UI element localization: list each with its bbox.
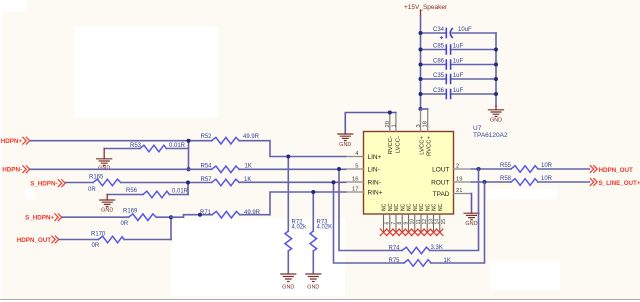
svg-text:12: 12: [422, 219, 428, 225]
sheet bottom border: [0, 299, 640, 301]
svg-text:19: 19: [456, 176, 462, 182]
wire R75 feedback left: [334, 182, 405, 263]
svg-text:RIN+: RIN+: [368, 190, 383, 197]
svg-text:GND: GND: [465, 221, 477, 227]
svg-text:NC: NC: [413, 203, 419, 211]
svg-text:LIN-: LIN-: [368, 167, 380, 174]
resistor R52 49.9R: [201, 134, 260, 144]
wire ROUT to R58: [472, 181, 512, 183]
junction R52/R53: [187, 139, 191, 143]
port S_LINE_OUT+: [590, 179, 640, 187]
junction R72/pin4 net: [286, 155, 290, 159]
resistor R170 0R: [91, 232, 124, 249]
svg-text:R165: R165: [89, 174, 104, 180]
wire R169 to junction: [156, 216, 171, 218]
svg-text:5: 5: [355, 163, 358, 169]
ground GND capacitors: [489, 106, 504, 123]
svg-text:10R: 10R: [541, 176, 553, 182]
svg-text:HDPN_OUT: HDPN_OUT: [17, 237, 51, 244]
pin 16 RIN-: [346, 176, 381, 186]
svg-text:1uF: 1uF: [453, 88, 464, 94]
resistor R57 1K: [201, 177, 252, 186]
junction dots on right rail: [494, 48, 498, 97]
wire right capacitor rail: [495, 33, 497, 106]
port HDPN+: [1, 137, 30, 145]
svg-text:C86: C86: [433, 59, 445, 65]
svg-text:GND: GND: [307, 284, 319, 290]
svg-text:0.01R: 0.01R: [172, 189, 189, 195]
svg-text:NC: NC: [407, 203, 413, 211]
svg-text:NC: NC: [419, 203, 425, 211]
svg-text:6: 6: [385, 222, 391, 225]
ground GND left of U7: [338, 134, 353, 148]
capacitor C35: [421, 73, 497, 84]
ground GND R53: [97, 149, 112, 172]
svg-text:10: 10: [410, 219, 416, 225]
svg-text:20: 20: [385, 121, 391, 127]
ground GND R73: [306, 274, 321, 290]
junction R165/R56/R57: [186, 181, 190, 185]
svg-text:1uF: 1uF: [453, 73, 464, 79]
capacitor C86: [421, 59, 497, 70]
svg-text:GND: GND: [101, 208, 113, 214]
svg-text:4.02K: 4.02K: [317, 225, 333, 231]
port HDPN-: [2, 166, 29, 174]
wire R55 to port: [538, 168, 590, 170]
port S_HDPN-: [30, 180, 65, 188]
wire R74 feedback right: [430, 169, 479, 251]
resistor R54 1K: [201, 164, 252, 173]
svg-text:S_HDPN+: S_HDPN+: [25, 215, 54, 222]
resistor R58 10R: [500, 176, 553, 186]
svg-text:R58: R58: [500, 176, 512, 182]
svg-text:1: 1: [391, 124, 397, 127]
wire HDPN- net: [30, 168, 212, 170]
wire jog to R71: [171, 215, 212, 218]
svg-text:HDPN-: HDPN-: [2, 167, 22, 174]
svg-text:0R: 0R: [92, 243, 100, 249]
resistor R56 0.01R: [107, 188, 188, 198]
svg-text:R169: R169: [123, 209, 138, 215]
svg-text:GND: GND: [490, 117, 502, 123]
wire R75 feedback right: [431, 182, 485, 263]
svg-text:LOUT: LOUT: [432, 167, 449, 174]
wire R71 to pin17: [240, 192, 346, 215]
svg-text:16: 16: [352, 176, 358, 182]
svg-text:+15V_Speaker: +15V_Speaker: [404, 4, 448, 11]
ground GND R56: [100, 195, 115, 214]
capacitor C36: [421, 88, 497, 99]
svg-text:R170: R170: [91, 232, 106, 238]
pin 5 LIN-: [346, 163, 380, 173]
resistor R74 3.3K: [389, 245, 443, 254]
svg-text:R71: R71: [200, 210, 212, 216]
svg-text:49.9R: 49.9R: [243, 134, 260, 140]
svg-text:NC: NC: [432, 203, 438, 211]
svg-text:HDPN+: HDPN+: [1, 138, 23, 145]
svg-text:U7: U7: [473, 125, 482, 132]
svg-text:GND: GND: [339, 142, 351, 148]
svg-text:0R: 0R: [88, 187, 96, 193]
resistor R53 0.01R: [104, 143, 188, 152]
wire pin3/pin18 tie: [421, 108, 428, 110]
svg-text:R54: R54: [201, 164, 213, 170]
svg-text:ROUT: ROUT: [431, 180, 449, 187]
NC pin numbers 6-15: [385, 219, 447, 225]
svg-text:S_HDPN-: S_HDPN-: [30, 181, 57, 188]
svg-text:NC: NC: [388, 203, 394, 211]
svg-text:0.01R: 0.01R: [169, 143, 186, 149]
port S_HDPN+: [25, 214, 62, 222]
resistor R73 4.02K: [310, 192, 332, 273]
resistor R165 0R: [88, 174, 121, 193]
junction S_HDPN+/HDPN_OUT: [169, 215, 173, 219]
svg-text:C34: C34: [433, 27, 445, 33]
pin 17 RIN+: [346, 186, 383, 196]
svg-text:15: 15: [441, 219, 447, 225]
resistor R169 0R: [121, 209, 157, 228]
svg-text:14: 14: [435, 219, 441, 225]
wire R165 to R57: [121, 182, 212, 184]
svg-text:1uF: 1uF: [453, 44, 464, 50]
svg-text:18: 18: [423, 121, 429, 127]
ground GND TPAD: [464, 213, 479, 227]
wire TPAD to ground: [471, 194, 473, 214]
pin 2 LOUT: [432, 163, 471, 173]
junction R74/pin5 net: [337, 167, 341, 171]
svg-text:RIN-: RIN-: [368, 180, 381, 187]
wire left capacitor rail: [420, 16, 422, 110]
wire S_HDPN+ to R169: [62, 216, 129, 218]
junction ROUT/R75: [483, 180, 487, 184]
svg-text:C85: C85: [433, 44, 445, 50]
svg-text:R74: R74: [389, 246, 401, 252]
resistor R75 1K: [389, 258, 451, 266]
svg-text:1uF: 1uF: [453, 59, 464, 65]
power port +15V_Speaker: [404, 4, 448, 16]
svg-text:RVCC+: RVCC+: [427, 135, 433, 156]
port HDPN_OUT right: [590, 166, 633, 174]
svg-text:13: 13: [428, 219, 434, 225]
resistor R72 4.02k: [285, 157, 307, 274]
svg-text:9: 9: [403, 222, 409, 225]
wire R57 to pin16: [239, 181, 345, 183]
svg-text:TPAD: TPAD: [433, 191, 450, 198]
capacitor C34: [421, 27, 497, 39]
pin 4 LIN+: [346, 151, 382, 161]
wire VCC- to ground: [345, 113, 396, 135]
svg-text:RVCC-: RVCC-: [388, 136, 394, 155]
wire R74 feedback left: [339, 169, 402, 251]
junction VCC- net: [388, 111, 392, 115]
ground GND R72: [281, 274, 296, 290]
wire R54 to pin5: [239, 168, 345, 170]
wire HDPN+ net: [30, 140, 212, 142]
no-connect X marks: [380, 229, 443, 235]
svg-text:R53: R53: [130, 143, 142, 149]
capacitor C85: [421, 44, 497, 55]
svg-text:LVCC-: LVCC-: [395, 136, 401, 153]
svg-text:GND: GND: [282, 284, 294, 290]
svg-text:NC: NC: [382, 203, 388, 211]
junction dots on left rail: [419, 31, 423, 111]
wire junction down to R170: [170, 217, 172, 239]
wire R56 vertical tie: [187, 183, 189, 195]
svg-text:LVCC+: LVCC+: [419, 135, 425, 154]
pin 20 RVCC-: [385, 113, 394, 155]
svg-text:11: 11: [416, 219, 422, 224]
svg-text:10uF: 10uF: [458, 27, 472, 33]
svg-text:GND: GND: [98, 165, 110, 171]
svg-text:LIN+: LIN+: [368, 154, 382, 161]
svg-text:HDPN_OUT: HDPN_OUT: [599, 167, 633, 174]
NC pins 6-15 with no-connect marks: [384, 214, 440, 232]
junction R53/R54: [187, 167, 191, 171]
svg-text:10R: 10R: [541, 163, 553, 169]
svg-text:4.02k: 4.02k: [292, 225, 308, 231]
port HDPN_OUT: [17, 236, 59, 244]
svg-text:S_LINE_OUT+: S_LINE_OUT+: [599, 180, 640, 187]
wire S_HDPN- to R165: [66, 182, 94, 184]
junction on R71 line: [198, 213, 202, 217]
junction R75/pin16 net: [332, 180, 336, 184]
svg-text:R55: R55: [500, 163, 512, 169]
resistor R55 10R: [500, 163, 553, 173]
svg-text:C36: C36: [433, 88, 445, 94]
svg-text:R56: R56: [126, 188, 138, 194]
resistor R71 49.9R: [200, 210, 261, 218]
svg-text:3: 3: [416, 124, 422, 127]
wire LOUT to R55: [472, 168, 512, 170]
svg-text:R75: R75: [389, 258, 401, 264]
IC U7 TPA6120A2 body: [364, 132, 454, 215]
svg-text:R57: R57: [201, 177, 213, 183]
svg-text:21: 21: [456, 188, 462, 194]
NC pin names: [382, 203, 444, 211]
svg-text:7: 7: [391, 222, 397, 225]
svg-text:17: 17: [352, 186, 358, 192]
pin 19 ROUT: [431, 176, 471, 186]
svg-text:NC: NC: [425, 203, 431, 211]
pin 3 LVCC+: [416, 109, 426, 155]
pin 1 LVCC-: [391, 113, 401, 154]
svg-text:8: 8: [397, 222, 403, 225]
svg-text:TPA6120A2: TPA6120A2: [473, 132, 508, 139]
svg-text:0R: 0R: [121, 221, 129, 227]
svg-text:C35: C35: [433, 73, 445, 79]
junction R73/pin17 net: [311, 190, 315, 194]
pin 21 TPAD: [433, 188, 472, 198]
svg-text:R52: R52: [201, 134, 213, 140]
wire R58 to port: [538, 181, 590, 183]
svg-text:NC: NC: [394, 203, 400, 211]
svg-text:2: 2: [456, 163, 459, 169]
svg-text:NC: NC: [400, 203, 406, 211]
wire R170 to junction: [124, 239, 171, 241]
wire HDPN_OUT to R170: [59, 239, 99, 241]
wire R52 to pin4: [239, 141, 345, 157]
svg-text:NC: NC: [438, 203, 444, 211]
wire R53 vertical tie: [188, 141, 190, 170]
junction LOUT/R74: [477, 167, 481, 171]
pin 18 RVCC+: [423, 109, 433, 156]
